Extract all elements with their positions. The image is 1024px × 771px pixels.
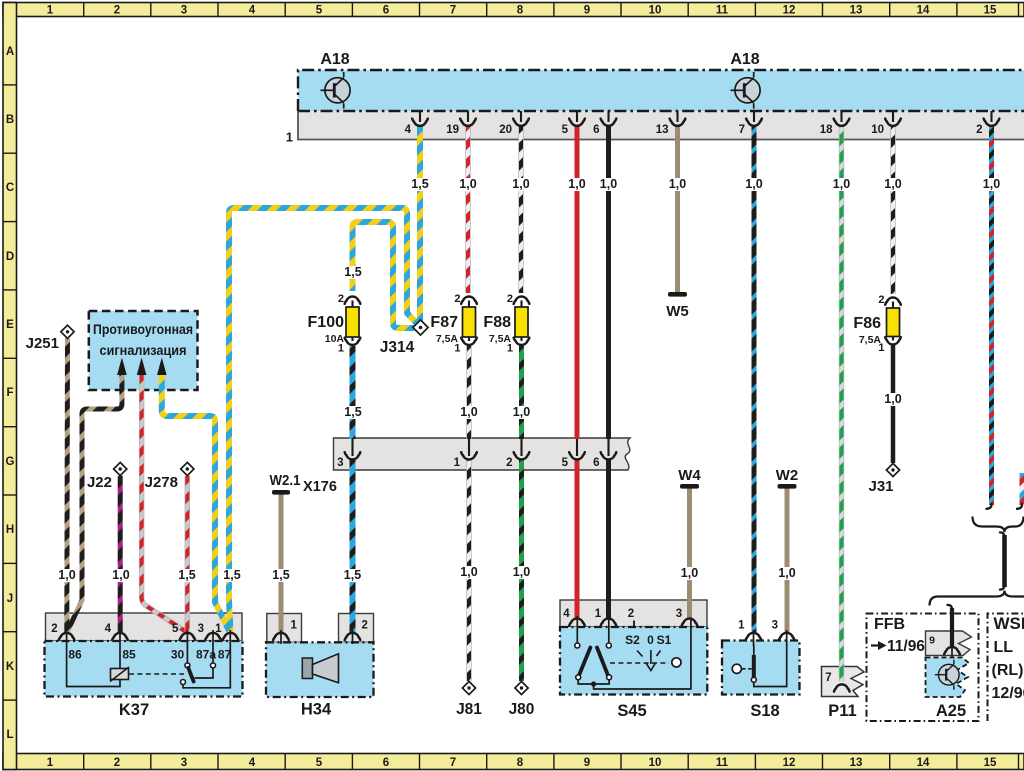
svg-text:11/96: 11/96 <box>887 638 925 655</box>
A25 terminal strip <box>926 631 972 656</box>
X176 terminal 5 <box>576 439 578 456</box>
connector J80 <box>515 681 528 694</box>
S45 terminal 3 <box>682 619 698 626</box>
svg-text:1,0: 1,0 <box>512 177 529 191</box>
svg-text:2: 2 <box>506 457 512 469</box>
connector bar X176 <box>334 438 631 470</box>
svg-text:8: 8 <box>517 757 524 769</box>
wire black/tan from J251 to K37:2 <box>64 339 70 633</box>
wire gauge label 1,0 <box>883 178 903 191</box>
svg-text:12: 12 <box>783 5 796 17</box>
svg-text:6: 6 <box>593 457 599 469</box>
svg-text:2: 2 <box>628 608 634 620</box>
svg-text:14: 14 <box>917 757 930 769</box>
svg-text:1,0: 1,0 <box>513 405 530 419</box>
svg-text:J80: J80 <box>509 701 535 718</box>
svg-text:4: 4 <box>405 124 412 136</box>
wire brown from W2.1 to H34:1 <box>279 495 284 634</box>
svg-text:3: 3 <box>181 5 187 17</box>
K37 coil <box>119 630 121 669</box>
svg-text:K37: K37 <box>119 701 149 719</box>
svg-text:A: A <box>6 46 14 58</box>
WSP dashed box <box>988 614 1024 722</box>
transistor symbol A18 (right) <box>731 72 761 109</box>
S18 terminal 3 <box>779 633 795 640</box>
svg-text:5: 5 <box>316 5 323 17</box>
svg-text:10: 10 <box>649 5 662 17</box>
wire blue/yellow J314 to F100 loop <box>353 222 415 328</box>
wire gauge label 1,0 <box>511 178 531 191</box>
label 1,0 above K37 <box>57 569 77 582</box>
svg-text:2: 2 <box>454 293 460 305</box>
svg-text:1,0: 1,0 <box>884 392 901 406</box>
svg-text:13: 13 <box>850 5 863 17</box>
arrow into alarm box (black/tan wire) <box>117 358 127 376</box>
X176 terminal 3 <box>351 439 353 456</box>
svg-text:13: 13 <box>656 124 669 136</box>
svg-text:H34: H34 <box>301 701 332 719</box>
svg-text:1: 1 <box>215 623 222 635</box>
svg-text:2: 2 <box>51 623 57 635</box>
svg-text:7: 7 <box>450 757 456 769</box>
K37 contact 87a circle <box>212 630 214 663</box>
svg-text:сигнализация: сигнализация <box>100 343 187 358</box>
K37 terminal 2 <box>59 633 75 640</box>
thick black wire to A25:9 <box>950 608 954 647</box>
svg-text:1,0: 1,0 <box>833 177 850 191</box>
P11 terminal cup <box>834 684 850 691</box>
fuse F87 7,5A <box>463 307 476 337</box>
wire gauge label 1,0 <box>458 178 478 191</box>
svg-text:3: 3 <box>676 608 682 620</box>
wire black/blue from A18:7 to S18:1 <box>752 126 757 633</box>
svg-text:9: 9 <box>584 5 590 17</box>
svg-text:19: 19 <box>446 124 459 136</box>
S45 selector arrow <box>646 650 656 671</box>
A18 terminal 19 <box>467 111 469 122</box>
splice W5 <box>668 292 687 297</box>
svg-text:4: 4 <box>249 5 256 17</box>
svg-text:14: 14 <box>917 5 930 17</box>
svg-text:A18: A18 <box>730 51 759 68</box>
H34 terminal 2 <box>345 633 361 640</box>
svg-text:1,5: 1,5 <box>344 265 361 279</box>
wire brown from W2 to S18:3 <box>785 489 790 634</box>
svg-text:1,5: 1,5 <box>344 405 361 419</box>
border frame top ruler <box>3 3 1024 17</box>
connector J31 <box>886 463 899 476</box>
wire green/black from F88 to X176:2 <box>519 346 524 439</box>
wire gauge label 1,0 <box>599 178 619 191</box>
svg-text:1,0: 1,0 <box>983 177 1000 191</box>
svg-text:2: 2 <box>878 294 884 306</box>
svg-text:A25: A25 <box>936 702 966 720</box>
svg-text:7,5A: 7,5A <box>859 334 882 346</box>
svg-text:6: 6 <box>383 5 389 17</box>
svg-text:J278: J278 <box>145 474 178 491</box>
svg-text:6: 6 <box>383 757 389 769</box>
label 1,0 on W5 wire <box>668 178 688 191</box>
label 1,5 on W2.1 wire <box>271 569 291 582</box>
svg-text:L: L <box>6 729 13 741</box>
svg-text:7,5A: 7,5A <box>489 333 512 345</box>
wire gauge label 1,5 <box>410 178 430 191</box>
wire red from A18:5 through X176:5 to S45:4 <box>575 126 580 439</box>
svg-text:1: 1 <box>291 620 298 632</box>
wire blue/yellow to alarm box arrow <box>162 372 230 633</box>
svg-text:1,5: 1,5 <box>178 568 195 582</box>
svg-text:3: 3 <box>337 457 343 469</box>
svg-text:8: 8 <box>517 5 524 17</box>
svg-text:15: 15 <box>984 757 997 769</box>
wire gauge label 1,0 <box>744 178 764 191</box>
svg-text:5: 5 <box>562 124 569 136</box>
svg-text:G: G <box>6 456 15 468</box>
label 1,0 below F87 <box>459 406 479 419</box>
svg-text:C: C <box>6 182 14 194</box>
svg-text:1,0: 1,0 <box>669 177 686 191</box>
H34 terminal 1 <box>273 633 289 640</box>
label 1,5 above K37 <box>222 569 242 582</box>
arrow into alarm box (blue/yellow wire) <box>157 358 167 376</box>
K37 terminal 5 <box>180 633 196 640</box>
label 1,5 above K37 <box>177 569 197 582</box>
S18 switch <box>753 645 755 656</box>
svg-text:4: 4 <box>105 623 112 635</box>
svg-text:1,0: 1,0 <box>459 177 476 191</box>
wire black/white from X176:1 to J81 <box>466 460 471 681</box>
connector J278 <box>181 462 194 475</box>
svg-text:J81: J81 <box>456 701 482 718</box>
svg-text:1: 1 <box>738 620 745 632</box>
svg-text:FFB: FFB <box>874 616 905 633</box>
label 1,0 below F88 <box>512 406 532 419</box>
svg-text:4: 4 <box>249 757 256 769</box>
svg-text:X176: X176 <box>303 478 337 495</box>
border frame left band <box>3 3 17 770</box>
svg-text:13: 13 <box>850 757 863 769</box>
wire black/white from A18:10 to F86 <box>890 126 895 294</box>
svg-text:7,5A: 7,5A <box>436 333 459 345</box>
svg-text:F87: F87 <box>430 314 458 331</box>
svg-text:J: J <box>7 593 13 605</box>
wire gauge label 1,0 <box>982 178 1002 191</box>
K37 coil to terminal 2 <box>67 630 120 687</box>
H34 speaker symbol <box>302 658 312 679</box>
wire brown from W4 to S45:3 <box>687 489 692 619</box>
svg-text:P11: P11 <box>828 702 856 720</box>
svg-text:2: 2 <box>362 620 368 632</box>
thick black link wire right <box>1002 535 1007 587</box>
svg-text:S2: S2 <box>625 633 640 647</box>
svg-text:J31: J31 <box>868 478 893 495</box>
X176 terminal 1 <box>468 439 470 456</box>
svg-text:7: 7 <box>739 124 745 136</box>
svg-text:1,0: 1,0 <box>778 566 795 580</box>
wire red/white from A18:19 to F87 <box>465 126 470 293</box>
connector J81 <box>462 681 475 694</box>
A18 terminal 4 <box>419 111 421 122</box>
S45 selector link dashes <box>610 662 669 664</box>
svg-text:2: 2 <box>976 124 982 136</box>
FFB date arrow <box>871 644 879 646</box>
svg-text:F: F <box>6 387 13 399</box>
svg-text:3: 3 <box>181 757 187 769</box>
wire black/white from A18:20 to F88 <box>518 126 523 293</box>
label 1,5 below F100 <box>343 406 363 419</box>
wire black/tan from alarm box to K37:2 <box>67 374 122 633</box>
wire blue/black from X176:3 to H34:2 <box>350 460 356 633</box>
S45 bottom links <box>578 680 609 684</box>
svg-text:5: 5 <box>172 623 179 635</box>
svg-text:1,5: 1,5 <box>272 568 289 582</box>
svg-text:1,0: 1,0 <box>460 565 477 579</box>
svg-text:(RL): (RL) <box>992 662 1024 679</box>
wire blue/black from F100 to X176:3 <box>350 346 356 439</box>
svg-text:1: 1 <box>454 457 461 469</box>
svg-text:10: 10 <box>871 124 884 136</box>
wire blue/yellow from A18:4 to J314 <box>417 126 423 321</box>
A25 body <box>926 658 970 698</box>
K37 terminal 4 <box>112 633 128 640</box>
A18 terminal 13 <box>676 111 678 122</box>
svg-text:9: 9 <box>929 635 935 647</box>
svg-text:6: 6 <box>593 124 599 136</box>
svg-text:W4: W4 <box>678 467 701 484</box>
svg-text:5: 5 <box>562 457 569 469</box>
svg-text:1,0: 1,0 <box>681 566 698 580</box>
A18 terminal 18 <box>840 111 842 122</box>
A18 terminal 20 <box>520 111 522 122</box>
brace upper (wire pair junction) <box>973 517 1024 533</box>
svg-text:11: 11 <box>716 5 729 17</box>
svg-text:1,0: 1,0 <box>112 568 129 582</box>
A25 transistor symbol <box>935 660 959 690</box>
K37 mechanical link (dashed) <box>129 673 184 675</box>
svg-text:7: 7 <box>825 672 831 684</box>
svg-text:15: 15 <box>984 5 997 17</box>
svg-text:3: 3 <box>772 620 778 632</box>
label 1,0 on J81 wire <box>459 566 479 579</box>
svg-text:W5: W5 <box>666 303 689 320</box>
wire black from A18:6 through X176:6 to S45:1 <box>606 126 611 439</box>
svg-text:1,5: 1,5 <box>223 568 240 582</box>
horn H34 body <box>266 642 374 697</box>
connector J251 <box>61 325 74 338</box>
wire blue/yellow branch J314 through horizontal run to K37:1 <box>229 208 417 633</box>
wire gauge label 1,0 <box>668 178 688 191</box>
A18 terminal 2 <box>990 111 992 122</box>
wire green/black from X176:2 to J80 <box>519 460 524 681</box>
label 1,0 below F86 <box>883 393 903 406</box>
K37 switch common 30 <box>186 630 188 663</box>
svg-text:S45: S45 <box>617 702 646 720</box>
transistor symbol A18 (left) <box>321 72 351 109</box>
svg-text:1,5: 1,5 <box>411 177 428 191</box>
svg-text:86: 86 <box>68 648 82 662</box>
svg-text:W2.1: W2.1 <box>270 472 301 489</box>
A18 terminal 5 <box>576 111 578 122</box>
FFB dashed box <box>867 614 979 722</box>
svg-text:85: 85 <box>122 648 136 662</box>
connector J22 <box>114 462 127 475</box>
svg-text:S18: S18 <box>750 702 779 720</box>
svg-text:F86: F86 <box>853 315 881 332</box>
X176 terminal 6 <box>607 439 609 456</box>
svg-text:12/96: 12/96 <box>992 685 1024 702</box>
svg-text:20: 20 <box>499 124 512 136</box>
svg-text:2: 2 <box>114 757 120 769</box>
border frame bottom ruler <box>3 754 1024 770</box>
svg-text:S1: S1 <box>657 633 672 647</box>
relay K37 terminal strip <box>46 613 243 641</box>
label 1,5 on H34:2 wire <box>343 569 363 582</box>
svg-text:K: K <box>6 661 15 673</box>
A18 terminal 7 <box>753 111 755 122</box>
svg-text:12: 12 <box>783 757 796 769</box>
control unit A18 bus bar <box>298 70 1024 111</box>
svg-text:18: 18 <box>820 124 833 136</box>
wire gauge label 1,0 <box>832 178 852 191</box>
svg-text:H: H <box>6 524 14 536</box>
svg-text:2: 2 <box>338 293 344 305</box>
wire gauge label 1,0 <box>567 178 587 191</box>
svg-text:30: 30 <box>171 648 185 662</box>
K37 terminal 1 <box>223 633 239 640</box>
svg-text:WSP: WSP <box>994 614 1024 633</box>
switch S45 body <box>560 627 707 695</box>
svg-text:5: 5 <box>316 757 323 769</box>
svg-text:1: 1 <box>286 130 293 145</box>
svg-text:7: 7 <box>450 5 456 17</box>
S45 switch levers <box>579 648 590 676</box>
svg-text:1,0: 1,0 <box>460 405 477 419</box>
brace lower (fan-out) <box>930 591 1024 606</box>
svg-text:1,0: 1,0 <box>600 177 617 191</box>
switch S18 body <box>722 641 800 695</box>
S45 contacts <box>576 616 578 643</box>
svg-text:1,0: 1,0 <box>513 565 530 579</box>
A18 terminal 6 <box>607 111 609 122</box>
svg-text:J251: J251 <box>26 335 59 352</box>
svg-text:J314: J314 <box>380 339 415 356</box>
svg-text:87: 87 <box>218 648 232 662</box>
svg-text:E: E <box>6 319 14 331</box>
svg-text:2: 2 <box>114 5 120 17</box>
svg-text:4: 4 <box>563 608 570 620</box>
label 1,5 above F100 <box>343 266 363 279</box>
wire black from F86 to J31 <box>891 345 896 463</box>
S18 terminal 1 <box>746 633 762 640</box>
svg-text:1,0: 1,0 <box>745 177 762 191</box>
arrow into alarm box (red/gray wire) <box>137 358 147 376</box>
K37 terminal 3 <box>205 633 221 640</box>
label 1,0 above K37 <box>111 569 131 582</box>
svg-text:1,5: 1,5 <box>344 568 361 582</box>
svg-text:W2: W2 <box>776 467 799 484</box>
wire red/gray from alarm box to K37:5 <box>142 374 188 633</box>
svg-text:1,0: 1,0 <box>58 568 75 582</box>
svg-text:D: D <box>6 251 14 263</box>
svg-text:10: 10 <box>649 757 662 769</box>
svg-text:2: 2 <box>507 293 513 305</box>
svg-text:Противоугонная: Противоугонная <box>93 322 193 337</box>
horn H34 terminal strips <box>267 614 302 643</box>
wire gray/red from J278 to K37:5 <box>185 476 190 633</box>
fuse F100 10A <box>346 307 359 337</box>
S45 terminal 1 <box>601 619 617 626</box>
fuse F86 7,5A <box>887 308 900 337</box>
svg-text:LL: LL <box>994 639 1014 656</box>
fuel pump P11 box <box>822 667 865 697</box>
svg-text:F88: F88 <box>483 314 511 331</box>
svg-text:1,0: 1,0 <box>568 177 585 191</box>
wire black/white from F87 to X176:1 <box>466 346 471 439</box>
svg-text:1,0: 1,0 <box>884 177 901 191</box>
svg-text:J22: J22 <box>87 474 112 491</box>
wire black/violet from J22 to K37:4 <box>118 476 123 633</box>
svg-text:1: 1 <box>47 757 54 769</box>
connector J314 <box>413 320 428 335</box>
svg-text:3: 3 <box>198 623 204 635</box>
svg-text:11: 11 <box>716 757 729 769</box>
fuse F88 7,5A <box>515 307 528 337</box>
wire green/white from A18:18 to P11:7 <box>839 126 844 682</box>
svg-text:10A: 10A <box>325 333 345 345</box>
svg-text:1: 1 <box>47 5 54 17</box>
svg-text:F100: F100 <box>308 314 345 331</box>
K37 contact 87 circle and link to terminal 1 <box>181 680 186 685</box>
switch S45 terminal strip <box>560 600 707 627</box>
A18 terminal 10 <box>892 111 894 122</box>
wire brown from A18:13 to W5 <box>675 126 680 292</box>
label 1,0 on J80 wire <box>512 566 532 579</box>
S45 terminal 4 <box>569 619 585 626</box>
wire blue/white/red at right edge <box>1020 473 1024 505</box>
svg-text:A18: A18 <box>320 51 349 68</box>
svg-text:B: B <box>6 114 14 126</box>
wire blue/red/black from A18:2 <box>989 126 994 505</box>
svg-text:1: 1 <box>595 608 602 620</box>
anti-theft alarm box <box>89 311 198 390</box>
X176 terminal 2 <box>520 439 522 456</box>
relay K37 body <box>45 641 243 697</box>
svg-text:0: 0 <box>647 633 654 647</box>
K37 switch lever <box>188 668 193 682</box>
svg-text:9: 9 <box>584 757 590 769</box>
